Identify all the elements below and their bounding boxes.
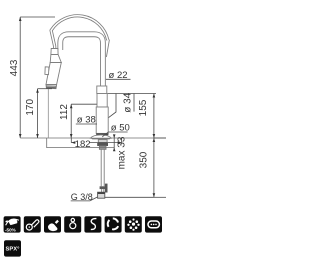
svg-text:-50%: -50% bbox=[5, 227, 16, 232]
svg-text:ø 22: ø 22 bbox=[109, 70, 128, 81]
svg-text:350: 350 bbox=[139, 151, 150, 168]
svg-text:max 33: max 33 bbox=[117, 136, 128, 169]
svg-text:G 3/8: G 3/8 bbox=[71, 192, 93, 202]
svg-text:ø 34: ø 34 bbox=[123, 92, 134, 112]
svg-text:443: 443 bbox=[9, 59, 20, 76]
svg-text:182: 182 bbox=[75, 139, 91, 150]
svg-text:170: 170 bbox=[25, 99, 36, 116]
svg-text:ø 38: ø 38 bbox=[77, 115, 96, 126]
svg-text:155: 155 bbox=[138, 99, 149, 116]
svg-text:ø 50: ø 50 bbox=[111, 122, 130, 133]
svg-text:112: 112 bbox=[59, 104, 70, 120]
svg-text:SPX°: SPX° bbox=[6, 247, 21, 253]
